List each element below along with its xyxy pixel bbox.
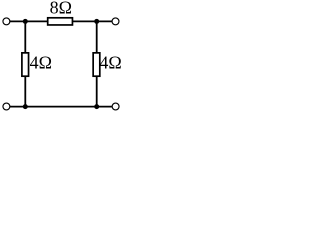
wire left branch lower [24,76,26,107]
svg-text:4Ω: 4Ω [99,53,121,73]
junction node bottom-left [23,104,28,109]
terminal bottom-right [112,103,119,110]
junction node bottom-right [94,104,99,109]
resistor R1 8-ohm body [48,18,73,25]
wire top rail left: terminal to 8-ohm resistor [10,20,48,22]
wire left branch upper [24,21,26,52]
wire right branch upper [96,21,98,52]
junction node top-right [94,19,99,24]
wire top rail right: 8-ohm resistor to terminal [73,20,112,22]
svg-text:8Ω: 8Ω [50,0,72,18]
wire right branch lower [96,76,98,107]
resistor R3 4-ohm right body [93,53,100,76]
junction node top-left [23,19,28,24]
resistor R2 4-ohm left body [22,53,29,76]
wire bottom rail [10,106,112,108]
terminal top-left [3,18,10,25]
terminal top-right [112,18,119,25]
svg-text:4Ω: 4Ω [30,53,52,73]
terminal bottom-left [3,103,10,110]
